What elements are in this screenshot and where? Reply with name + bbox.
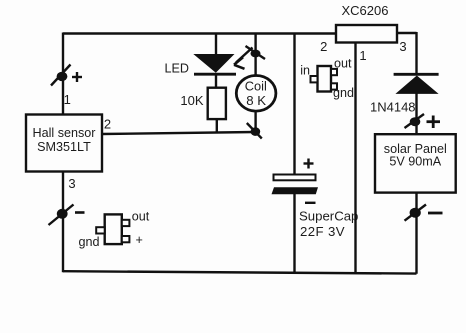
svg-text:5V 90mA: 5V 90mA xyxy=(389,155,441,169)
svg-text:SM351LT: SM351LT xyxy=(37,140,91,154)
wire resistor to pin2 wire xyxy=(216,119,218,134)
wire solar panel to bottom rail xyxy=(415,193,417,274)
resistor 10K xyxy=(180,88,226,119)
node at coil top xyxy=(246,46,266,59)
svg-text:out: out xyxy=(334,57,352,71)
Hall sensor U2 box xyxy=(26,115,102,172)
node + terminal (solar top) xyxy=(405,114,441,128)
svg-text:2: 2 xyxy=(320,39,327,54)
svg-text:Hall sensor: Hall sensor xyxy=(33,126,96,140)
svg-text:SuperCap: SuperCap xyxy=(299,209,358,224)
svg-text:+: + xyxy=(136,233,143,247)
svg-text:in: in xyxy=(300,64,310,78)
svg-text:3: 3 xyxy=(399,39,406,54)
wire Hall pin 3 down to bottom rail xyxy=(62,172,64,273)
wire Hall pin 2 to coil node xyxy=(102,132,255,134)
svg-text:1: 1 xyxy=(64,92,71,107)
svg-text:2: 2 xyxy=(104,117,111,132)
svg-text:Coil: Coil xyxy=(245,79,267,94)
node at coil bottom / pin2 junction xyxy=(247,123,262,139)
SOT-23 pinout sketch (hall sensor) xyxy=(79,210,150,250)
light arrow into LED xyxy=(234,48,253,69)
LED D1 xyxy=(193,54,236,74)
wire regulator pin3 to diode branch xyxy=(396,32,417,34)
svg-text:22F 3V: 22F 3V xyxy=(300,224,345,239)
svg-text:3: 3 xyxy=(68,176,75,191)
svg-text:10K: 10K xyxy=(180,93,203,108)
diode 1N4148 xyxy=(394,74,439,94)
svg-text:8 K: 8 K xyxy=(246,93,266,108)
wire diode to solar panel xyxy=(415,93,417,135)
wire supercap branch from top rail xyxy=(293,34,295,176)
svg-text:XC6206: XC6206 xyxy=(342,3,389,18)
svg-text:gnd: gnd xyxy=(333,86,354,100)
wire coil branch from top rail xyxy=(254,34,256,77)
svg-text:1: 1 xyxy=(359,48,366,63)
coil L1 8K xyxy=(236,76,276,112)
svg-text:1N4148: 1N4148 xyxy=(370,100,416,115)
wire bottom rail xyxy=(63,271,417,273)
wire LED branch from top rail xyxy=(215,34,217,55)
wire LED to resistor xyxy=(215,74,217,88)
node - terminal (bottom left) xyxy=(49,205,85,226)
wire top rail xyxy=(63,32,336,34)
node - terminal (solar bottom) xyxy=(405,205,443,221)
svg-text:LED: LED xyxy=(165,62,190,76)
svg-text:gnd: gnd xyxy=(79,235,100,249)
wire coil bottom to node xyxy=(254,113,256,132)
wire supercap to bottom rail xyxy=(293,194,295,274)
svg-text:out: out xyxy=(132,210,150,224)
supercap C1 xyxy=(272,159,319,203)
wire top right down to diode xyxy=(415,32,417,73)
wire left vertical to Hall pin 1 xyxy=(62,33,64,115)
XC6206 regulator U1 xyxy=(336,3,397,43)
wire regulator pin1 down to bottom rail xyxy=(354,43,356,274)
node + terminal (top left) xyxy=(51,65,82,86)
SOT-23 pinout sketch (regulator) xyxy=(300,57,354,101)
solar panel PV1 box xyxy=(375,134,456,192)
